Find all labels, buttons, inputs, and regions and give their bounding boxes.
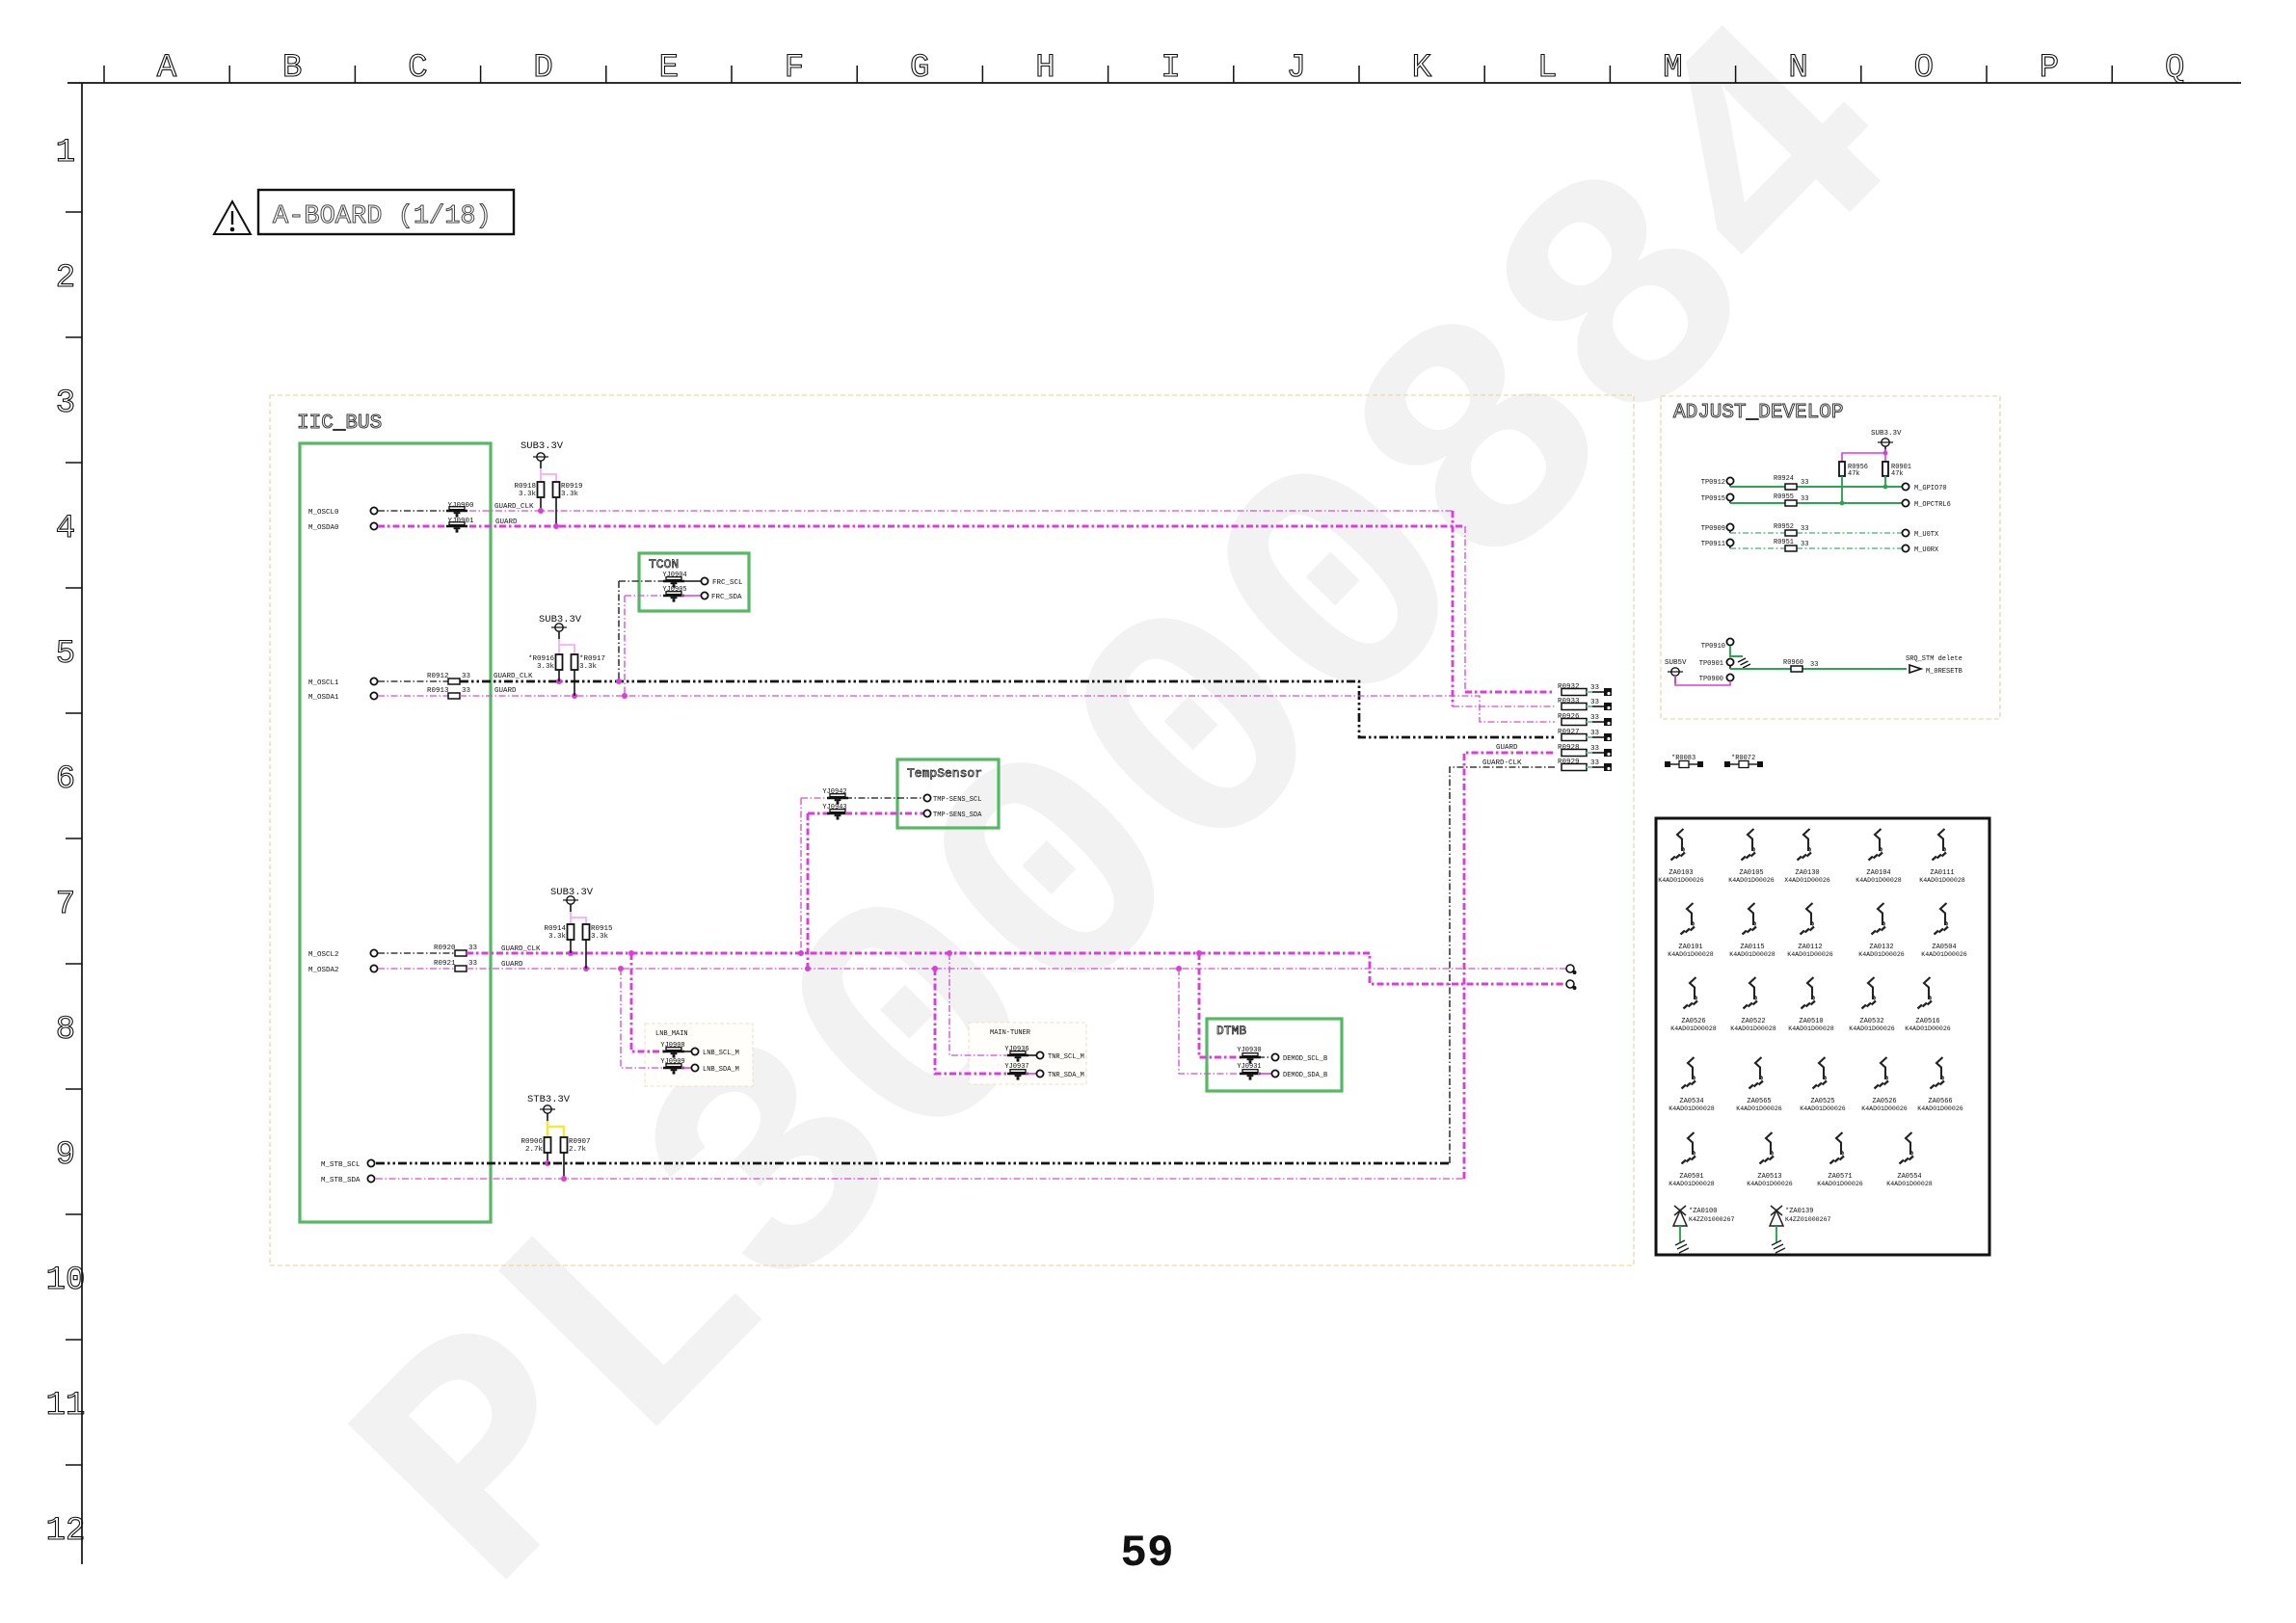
pin M_OPCTRL6 bbox=[1902, 499, 1909, 506]
resistor R0956 47k bbox=[1839, 462, 1845, 476]
svg-text:ZA0513: ZA0513 bbox=[1757, 1173, 1781, 1181]
ground jumper ZA0534 bbox=[1669, 1057, 1715, 1112]
ground jumper ZA0105 bbox=[1728, 829, 1775, 884]
wire GUARD_CLK row0 vertical drop to R0933 bbox=[1452, 511, 1455, 706]
svg-text:3.3k: 3.3k bbox=[561, 491, 579, 498]
svg-text:33: 33 bbox=[468, 960, 478, 968]
svg-text:K4AD01D00028: K4AD01D00028 bbox=[1729, 951, 1775, 958]
wire R0917 to GUARD bbox=[574, 670, 575, 696]
ground jumper ZA0566 bbox=[1917, 1057, 1963, 1112]
junction R0907/M_STB_SDA bbox=[561, 1176, 567, 1182]
resistor R0921 33 bbox=[455, 966, 467, 971]
junction R0919/GUARD bbox=[553, 523, 559, 529]
svg-text:TP0911: TP0911 bbox=[1701, 541, 1725, 548]
wire YJ0943 to TMP-SENS_SDA bbox=[845, 812, 923, 815]
ground jumper ZA0513 bbox=[1747, 1132, 1793, 1187]
ground jumper ZA0526 bbox=[1670, 977, 1717, 1032]
svg-text:R0918: R0918 bbox=[514, 483, 536, 491]
svg-text:GUARD: GUARD bbox=[494, 687, 517, 695]
spark gap *ZA0139 bbox=[1770, 1206, 1831, 1253]
svg-text:TP0909: TP0909 bbox=[1701, 525, 1725, 533]
off-page connector GUARD bbox=[1566, 965, 1577, 974]
wire YJ0905 to FRC_SDA pin bbox=[681, 595, 701, 597]
svg-text:K4AD01D00026: K4AD01D00026 bbox=[1658, 877, 1704, 884]
svg-text:33: 33 bbox=[1810, 661, 1818, 669]
ADJUST_DEVELOP section boundary box bbox=[1661, 396, 2000, 719]
junction R0916/GUARD_CLK bbox=[556, 678, 562, 684]
terminal of R0927 bbox=[1604, 733, 1612, 741]
svg-text:11: 11 bbox=[46, 1388, 86, 1424]
terminal of R0932 bbox=[1604, 688, 1612, 696]
resistor R0918 3.3k bbox=[538, 482, 545, 497]
junction TNR-SDA/GUARD bbox=[932, 966, 938, 971]
svg-text:M_OSDA1: M_OSDA1 bbox=[308, 694, 339, 702]
ground jumper ZA0565 bbox=[1736, 1057, 1782, 1112]
svg-text:K4AD01D00028: K4AD01D00028 bbox=[1668, 951, 1714, 958]
pin M_STB_SCL bbox=[367, 1159, 374, 1166]
svg-text:K4AD01D00028: K4AD01D00028 bbox=[1886, 1181, 1933, 1187]
svg-text:M_OSDA0: M_OSDA0 bbox=[308, 524, 339, 532]
pin DEMOD_SCL_B bbox=[1271, 1053, 1278, 1060]
resistor R0932 33 bbox=[1562, 689, 1587, 696]
svg-text:GUARD: GUARD bbox=[1496, 744, 1518, 752]
junction DTMB-SDA/GUARD bbox=[1176, 966, 1182, 971]
pin M_OSDA1 bbox=[370, 692, 377, 699]
LNB_MAIN block box bbox=[645, 1024, 753, 1086]
junction R0918/GUARD_CLK bbox=[538, 508, 544, 514]
resistor *R0917 3.3k bbox=[572, 654, 578, 670]
svg-text:R0906: R0906 bbox=[521, 1138, 543, 1146]
svg-text:M_U0RX: M_U0RX bbox=[1914, 546, 1939, 554]
svg-text:M_GPIO70: M_GPIO70 bbox=[1914, 485, 1947, 492]
svg-text:K4AD01D00026: K4AD01D00026 bbox=[1817, 1181, 1863, 1187]
wire magenta SUB5V to TP0900 bbox=[1675, 676, 1730, 685]
wire magenta supply to R0956/R0901 bbox=[1884, 449, 1886, 462]
svg-text:R0927: R0927 bbox=[1558, 729, 1580, 736]
svg-text:K: K bbox=[1412, 50, 1432, 87]
jumper YJ0905 bbox=[663, 592, 684, 602]
wire M_OSDA1 to R0913 bbox=[378, 695, 448, 697]
resistor R0955 33 bbox=[1785, 500, 1797, 506]
wire TMP SDA vertical to GUARD bus bbox=[807, 813, 810, 969]
svg-text:R0951: R0951 bbox=[1774, 539, 1794, 546]
wire M_U0RX line bbox=[1730, 547, 1785, 549]
wire R0956 to TP0915 line bbox=[1841, 476, 1843, 503]
wire R0906 to M_STB_SCL bbox=[547, 1153, 548, 1163]
jumper YJ0943 bbox=[827, 810, 848, 820]
svg-text:4: 4 bbox=[56, 511, 75, 547]
ground jumper ZA0571 bbox=[1817, 1132, 1863, 1187]
svg-text:TMP-SENS_SDA: TMP-SENS_SDA bbox=[933, 811, 982, 819]
svg-text:M: M bbox=[1663, 50, 1682, 87]
svg-text:33: 33 bbox=[462, 687, 471, 695]
svg-text:8: 8 bbox=[56, 1012, 75, 1049]
svg-text:GUARD-CLK: GUARD-CLK bbox=[1482, 759, 1522, 767]
pin M_GPIO70 bbox=[1902, 483, 1909, 490]
pin M_STB_SDA bbox=[367, 1175, 374, 1182]
ruler top ticks bbox=[104, 66, 2112, 83]
svg-text:R0929: R0929 bbox=[1558, 758, 1580, 766]
ruler left ticks bbox=[66, 212, 82, 1465]
junction LNB-SCL/GUARD_CLK bbox=[628, 950, 634, 956]
resistor R0926 33 bbox=[1562, 719, 1587, 726]
svg-text:R0955: R0955 bbox=[1774, 493, 1794, 501]
svg-text:YJ0904: YJ0904 bbox=[662, 572, 686, 579]
svg-text:TP0910: TP0910 bbox=[1701, 643, 1725, 651]
test point TP0900 bbox=[1726, 674, 1733, 680]
svg-text:YJ0937: YJ0937 bbox=[1004, 1063, 1028, 1071]
wire pink supply to R0918/R0919 bbox=[540, 468, 542, 482]
svg-text:YJ0909: YJ0909 bbox=[660, 1058, 684, 1066]
resistor R0912 33 bbox=[448, 678, 460, 684]
wire R0915 to GUARD bbox=[585, 940, 587, 969]
svg-text:YJ0930: YJ0930 bbox=[1237, 1047, 1261, 1054]
pin DEMOD_SDA_B bbox=[1271, 1070, 1278, 1077]
svg-text:K4AD01D00026: K4AD01D00026 bbox=[1917, 1105, 1963, 1112]
svg-text:7: 7 bbox=[56, 887, 75, 923]
svg-text:E: E bbox=[659, 50, 679, 87]
resistor R0915 3.3k bbox=[583, 924, 590, 940]
pin M_U0RX bbox=[1902, 545, 1909, 551]
svg-text:G: G bbox=[910, 50, 929, 87]
svg-text:GUARD: GUARD bbox=[501, 961, 523, 969]
svg-text:YJ0908: YJ0908 bbox=[660, 1042, 684, 1050]
svg-text:1: 1 bbox=[56, 135, 75, 172]
svg-text:*ZA0100: *ZA0100 bbox=[1689, 1208, 1717, 1215]
svg-text:TempSensor: TempSensor bbox=[907, 766, 982, 781]
jumper YJ0942 bbox=[827, 794, 848, 805]
svg-text:M_OPCTRL6: M_OPCTRL6 bbox=[1914, 501, 1951, 509]
svg-text:*ZA0139: *ZA0139 bbox=[1785, 1208, 1813, 1215]
pin M_OSCL1 bbox=[370, 678, 377, 684]
wire DTMB SCL vertical from GUARD_CLK bbox=[1199, 953, 1242, 1057]
svg-text:R0926: R0926 bbox=[1558, 713, 1580, 721]
pin LNB_SCL_M bbox=[691, 1048, 698, 1054]
svg-text:YJ0905: YJ0905 bbox=[662, 586, 686, 594]
svg-text:R0907: R0907 bbox=[569, 1138, 591, 1146]
svg-text:12: 12 bbox=[46, 1513, 86, 1550]
resistor R0933 33 bbox=[1562, 704, 1587, 710]
wire GUARD row1 to R0926 bbox=[460, 696, 1555, 722]
svg-text:B: B bbox=[282, 50, 302, 87]
wire R0916 to GUARD_CLK bbox=[558, 670, 560, 681]
svg-text:33: 33 bbox=[462, 673, 471, 680]
svg-text:K4AD01D00028: K4AD01D00028 bbox=[1669, 1105, 1715, 1112]
svg-text:K4AD01D00028: K4AD01D00028 bbox=[1669, 1181, 1715, 1187]
wire M_U0TX line bbox=[1730, 532, 1785, 534]
svg-text:K4AD01D00028: K4AD01D00028 bbox=[1670, 1025, 1717, 1032]
svg-text:M_STB_SDA: M_STB_SDA bbox=[321, 1177, 360, 1184]
svg-text:TP0915: TP0915 bbox=[1701, 495, 1725, 503]
svg-text:33: 33 bbox=[1801, 495, 1808, 503]
wire YJ0909 to LNB_SDA_M bbox=[681, 1067, 691, 1069]
test point TP0911 bbox=[1726, 539, 1733, 545]
resistor R0914 3.3k bbox=[568, 924, 574, 940]
wire TNR SDA vertical from GUARD bbox=[935, 969, 1010, 1074]
svg-text:R0960: R0960 bbox=[1783, 659, 1803, 667]
junction R0906/M_STB_SCL bbox=[545, 1160, 550, 1166]
svg-text:TMP-SENS_SCL: TMP-SENS_SCL bbox=[933, 796, 981, 804]
svg-text:K4ZZ01000267: K4ZZ01000267 bbox=[1785, 1216, 1831, 1223]
svg-text:O: O bbox=[1914, 50, 1934, 87]
svg-text:Q: Q bbox=[2165, 50, 2184, 87]
resistor R0928 33 bbox=[1562, 750, 1587, 757]
svg-text:33: 33 bbox=[1801, 525, 1808, 533]
pin M_OSDA0 bbox=[370, 522, 377, 529]
resistor R0929 33 bbox=[1562, 764, 1587, 771]
border ruler left line bbox=[81, 83, 83, 1564]
junction TNR-SCL/GUARD_CLK bbox=[947, 950, 952, 956]
svg-text:R0928: R0928 bbox=[1558, 744, 1580, 752]
resistor R0919 3.3k bbox=[553, 482, 560, 497]
pin M_U0TX bbox=[1902, 529, 1909, 536]
ground jumper ZA0112 bbox=[1787, 903, 1833, 958]
svg-text:ZA0565: ZA0565 bbox=[1747, 1098, 1771, 1105]
svg-text:33: 33 bbox=[1801, 479, 1808, 487]
svg-text:YJ0942: YJ0942 bbox=[822, 788, 846, 796]
wire M_OSDA2 to R0921 bbox=[378, 968, 455, 970]
resistor R0960 33 bbox=[1791, 666, 1802, 672]
svg-text:ZA0105: ZA0105 bbox=[1739, 869, 1763, 877]
wire yellow supply to R0906/R0907 bbox=[547, 1121, 549, 1137]
svg-text:33: 33 bbox=[468, 945, 478, 952]
svg-text:TP0900: TP0900 bbox=[1699, 676, 1723, 683]
wire YJ0937 to TNR_SDA_M bbox=[1026, 1073, 1036, 1075]
svg-text:R0924: R0924 bbox=[1774, 475, 1794, 483]
svg-text:FRC_SDA: FRC_SDA bbox=[711, 594, 742, 601]
svg-text:33: 33 bbox=[1590, 714, 1600, 722]
svg-text:M_OSDA2: M_OSDA2 bbox=[308, 967, 339, 974]
main green bus box bbox=[300, 443, 491, 1222]
svg-text:33: 33 bbox=[1590, 745, 1600, 753]
wire M_OSCL1 to R0912 bbox=[378, 680, 448, 682]
svg-text:K4AD01D00028: K4AD01D00028 bbox=[1919, 877, 1965, 884]
svg-text:K4AD01D00026: K4AD01D00026 bbox=[1861, 1105, 1908, 1112]
terminal of R0928 bbox=[1604, 749, 1612, 757]
wire TCON SCL horizontal bbox=[619, 580, 666, 582]
junction LNB-SDA/GUARD bbox=[618, 966, 624, 971]
svg-text:3.3k: 3.3k bbox=[548, 933, 567, 941]
spark gap *ZA0100 bbox=[1673, 1206, 1735, 1253]
DTMB block box bbox=[1207, 1019, 1342, 1091]
svg-text:K4AD01D00028: K4AD01D00028 bbox=[1730, 1025, 1776, 1032]
svg-text:DEMOD_SCL_B: DEMOD_SCL_B bbox=[1283, 1055, 1327, 1063]
svg-text:C: C bbox=[408, 50, 427, 87]
svg-text:ZA0571: ZA0571 bbox=[1828, 1173, 1852, 1181]
svg-text:I: I bbox=[1161, 50, 1180, 87]
svg-text:33: 33 bbox=[1590, 684, 1600, 692]
svg-text:33: 33 bbox=[1590, 730, 1600, 737]
test point TP0915 bbox=[1726, 493, 1733, 500]
svg-text:6: 6 bbox=[56, 761, 75, 798]
svg-text:GUARD_CLK: GUARD_CLK bbox=[494, 503, 534, 511]
wire M_STB_SDA bus bbox=[376, 1178, 1464, 1180]
svg-text:L: L bbox=[1537, 50, 1557, 87]
svg-text:ADJUST_DEVELOP: ADJUST_DEVELOP bbox=[1673, 402, 1843, 424]
svg-text:ZA0526: ZA0526 bbox=[1681, 1018, 1705, 1025]
wire GUARD_CLK row2 bus bbox=[467, 953, 1566, 984]
wire M_OSCL2 to R0920 bbox=[378, 952, 455, 954]
svg-text:33: 33 bbox=[1801, 541, 1808, 548]
svg-text:K4AD01D00026: K4AD01D00026 bbox=[1728, 877, 1775, 884]
jumper YJ0908 bbox=[663, 1048, 684, 1058]
svg-text:2.7k: 2.7k bbox=[569, 1146, 587, 1154]
test point TP0901 bbox=[1726, 658, 1733, 665]
svg-text:*R0916: *R0916 bbox=[528, 655, 555, 663]
svg-text:R0914: R0914 bbox=[544, 925, 566, 933]
svg-text:3.3k: 3.3k bbox=[579, 663, 598, 671]
svg-text:K4AD01D00026: K4AD01D00026 bbox=[1787, 951, 1833, 958]
junction TMP-SCL/GUARD_CLK bbox=[798, 950, 804, 956]
terminal of R0926 bbox=[1604, 718, 1612, 726]
wire pink supply to R0916/R0917 bbox=[558, 639, 560, 654]
svg-text:MAIN-TUNER: MAIN-TUNER bbox=[990, 1029, 1031, 1037]
svg-text:SUB5V: SUB5V bbox=[1665, 659, 1687, 667]
svg-text:ZA0510: ZA0510 bbox=[1799, 1018, 1823, 1025]
svg-text:M_U0TX: M_U0TX bbox=[1914, 531, 1939, 539]
svg-text:A-BOARD (1/18): A-BOARD (1/18) bbox=[273, 202, 492, 231]
wire YJ0930 to DEMOD_SCL_B bbox=[1258, 1056, 1271, 1058]
junction R0914/GUARD_CLK bbox=[568, 950, 574, 956]
svg-text:K4AD01D00026: K4AD01D00026 bbox=[1849, 1025, 1895, 1032]
svg-text:ZA0103: ZA0103 bbox=[1669, 869, 1693, 877]
svg-text:M_STB_SCL: M_STB_SCL bbox=[321, 1161, 360, 1169]
wire TCON SDA horizontal bbox=[625, 595, 666, 597]
wire DTMB SDA vertical from GUARD bbox=[1179, 969, 1242, 1074]
jumper YJ0900 bbox=[446, 507, 467, 518]
resistor R0920 33 bbox=[455, 950, 467, 956]
wire M_0RESETB line bbox=[1730, 668, 1791, 670]
off-page connector GUARD_CLK bbox=[1566, 980, 1577, 990]
svg-text:YJ0943: YJ0943 bbox=[822, 804, 846, 811]
test point TP0909 bbox=[1726, 523, 1733, 530]
svg-text:FRC_SCL: FRC_SCL bbox=[712, 579, 743, 587]
svg-text:LNB_MAIN: LNB_MAIN bbox=[655, 1030, 688, 1038]
svg-text:D: D bbox=[533, 50, 552, 87]
resistor R0913 33 bbox=[448, 693, 460, 699]
svg-text:R0915: R0915 bbox=[591, 925, 613, 933]
junction TMP-SDA/GUARD bbox=[805, 966, 811, 971]
wire YJ0908 to LNB_SCL_M bbox=[681, 1051, 691, 1052]
svg-text:YJ0936: YJ0936 bbox=[1004, 1046, 1028, 1053]
svg-text:SRQ_STM delete: SRQ_STM delete bbox=[1906, 655, 1962, 663]
svg-text:F: F bbox=[785, 50, 804, 87]
test point TP0912 bbox=[1726, 477, 1733, 484]
svg-text:J: J bbox=[1287, 50, 1306, 87]
svg-text:M_0RESETB: M_0RESETB bbox=[1926, 668, 1962, 676]
svg-text:5: 5 bbox=[56, 636, 75, 673]
svg-text:ZA0526: ZA0526 bbox=[1872, 1098, 1896, 1105]
svg-text:33: 33 bbox=[1590, 699, 1600, 706]
svg-text:59: 59 bbox=[1120, 1529, 1173, 1579]
junction R0956 bbox=[1840, 501, 1845, 506]
TCON block box bbox=[639, 553, 749, 611]
ruler row numbers 1-12 bbox=[46, 135, 86, 1550]
ground jumper ZA0501 bbox=[1669, 1132, 1715, 1187]
svg-text:ZA0525: ZA0525 bbox=[1810, 1098, 1834, 1105]
wire TMP SDA horizontal bbox=[808, 812, 830, 815]
ground jumper ZA0532 bbox=[1849, 977, 1895, 1032]
wire M_OSCL0 to jumper YJ0900 bbox=[378, 510, 444, 512]
wire TCON SCL vertical from M_OSCL1 bbox=[618, 581, 620, 681]
junction TCON-SDA/GUARD bbox=[622, 693, 627, 699]
wire GUARD row0 vertical drop to R0932 bbox=[1464, 526, 1466, 692]
wire TNR SCL vertical from GUARD_CLK bbox=[949, 953, 1010, 1055]
title box A-BOARD (1/18) bbox=[258, 190, 514, 234]
IIC_BUS section boundary box bbox=[270, 395, 1634, 1265]
svg-text:2.7k: 2.7k bbox=[525, 1146, 544, 1154]
pin FRC_SCL bbox=[701, 577, 707, 584]
svg-text:2: 2 bbox=[56, 260, 75, 297]
jumper YJ0936 bbox=[1007, 1051, 1028, 1062]
ground symbol (TP0901) bbox=[1738, 658, 1750, 668]
svg-text:DTMB: DTMB bbox=[1216, 1024, 1246, 1038]
wire M_OPCTRL6 line bbox=[1730, 502, 1785, 504]
ground jumper ZA0554 bbox=[1886, 1132, 1933, 1187]
pin TMP-SENS_SCL bbox=[923, 794, 930, 801]
wire M_STB_SDA vertical riser to R0928 bbox=[1464, 753, 1555, 1179]
ground jumper ZA0510 bbox=[1788, 977, 1834, 1032]
svg-text:47k: 47k bbox=[1891, 470, 1904, 478]
jumper YJ0931 bbox=[1240, 1070, 1261, 1080]
svg-text:ZA0534: ZA0534 bbox=[1679, 1098, 1703, 1105]
svg-text:R0921: R0921 bbox=[434, 960, 456, 968]
jumper YJ0904 bbox=[663, 577, 684, 588]
pin FRC_SDA bbox=[701, 592, 707, 599]
svg-text:ZA0501: ZA0501 bbox=[1679, 1173, 1703, 1181]
svg-text:ZA0516: ZA0516 bbox=[1915, 1018, 1939, 1025]
arrow M_0RESETB bbox=[1909, 665, 1921, 673]
svg-text:ZA0104: ZA0104 bbox=[1866, 869, 1890, 877]
junction R0915/GUARD bbox=[583, 966, 589, 971]
svg-text:R0932: R0932 bbox=[1558, 683, 1580, 691]
ground jumper ZA0504 bbox=[1921, 903, 1967, 958]
svg-text:K4AD01D00026: K4AD01D00026 bbox=[1747, 1181, 1793, 1187]
svg-text:47k: 47k bbox=[1848, 470, 1860, 478]
wire YJ0931 to DEMOD_SDA_B bbox=[1258, 1073, 1271, 1075]
svg-text:TP0901: TP0901 bbox=[1699, 660, 1723, 668]
ZA components box bbox=[1656, 818, 1989, 1255]
svg-text:SUB3.3V: SUB3.3V bbox=[1871, 430, 1902, 438]
svg-text:ZA0132: ZA0132 bbox=[1869, 944, 1893, 951]
resistor R0951 33 bbox=[1785, 545, 1797, 551]
jumper YJ0909 bbox=[663, 1064, 684, 1075]
wire YJ0904 to FRC_SCL pin bbox=[681, 580, 701, 582]
wire YJ0942 to TMP-SENS_SCL bbox=[845, 797, 923, 799]
pin M_OSCL2 bbox=[370, 949, 377, 956]
ground jumper ZA0104 bbox=[1855, 829, 1902, 884]
wire M_STB_SCL bus bbox=[376, 1162, 1450, 1165]
svg-text:ZA0115: ZA0115 bbox=[1740, 944, 1764, 951]
wire GUARD_CLK row0 horizontal bbox=[469, 510, 1453, 512]
jumper YJ0901 bbox=[446, 522, 467, 533]
junction R0901 bbox=[1883, 485, 1888, 490]
ground jumper ZA0516 bbox=[1905, 977, 1951, 1032]
wire TMP SCL vertical to GUARD_CLK bus bbox=[800, 798, 802, 953]
wire pink supply to R0914/R0915 bbox=[570, 912, 572, 924]
svg-text:ZA0566: ZA0566 bbox=[1928, 1098, 1952, 1105]
resistor *R0916 3.3k bbox=[556, 654, 563, 670]
ground jumper ZA0132 bbox=[1858, 903, 1905, 958]
junction R0917/GUARD bbox=[572, 693, 577, 699]
wire R0901 to TP0912 line bbox=[1884, 476, 1886, 487]
wire M_OSDA0 to jumper YJ0901 bbox=[378, 525, 444, 528]
svg-text:R0913: R0913 bbox=[427, 687, 449, 695]
svg-text:TP0912: TP0912 bbox=[1701, 479, 1725, 487]
svg-text:3: 3 bbox=[56, 386, 75, 422]
ground jumper ZA0130 bbox=[1784, 829, 1830, 884]
jumper YJ0930 bbox=[1240, 1053, 1261, 1064]
